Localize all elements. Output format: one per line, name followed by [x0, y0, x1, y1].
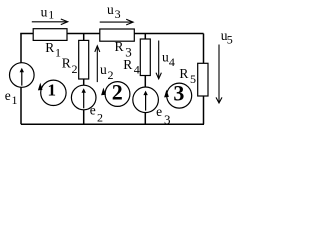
- svg-text:1: 1: [55, 46, 61, 60]
- wire bottom rail: [21, 123, 204, 125]
- svg-text:4: 4: [134, 62, 140, 76]
- resistor R2: [79, 40, 89, 79]
- wire left rail: [20, 34, 22, 125]
- svg-text:e: e: [5, 88, 11, 103]
- svg-text:R: R: [179, 66, 188, 81]
- svg-text:1: 1: [47, 81, 56, 100]
- resistor R4: [140, 39, 150, 76]
- svg-text:e: e: [156, 104, 162, 119]
- svg-text:u: u: [107, 2, 114, 17]
- svg-text:2: 2: [97, 110, 103, 124]
- mesh current arrow 2: [101, 82, 130, 107]
- svg-text:5: 5: [227, 33, 233, 47]
- resistor R1: [33, 29, 67, 41]
- voltage arrow u1: [32, 19, 68, 25]
- svg-text:3: 3: [164, 112, 171, 127]
- svg-text:3: 3: [173, 81, 184, 106]
- source e1 arrow: [20, 68, 24, 86]
- svg-text:2: 2: [72, 62, 78, 76]
- mesh current arrow 3: [164, 83, 192, 108]
- svg-text:3: 3: [115, 7, 121, 21]
- wire R2 branch: [83, 34, 85, 125]
- svg-text:4: 4: [169, 55, 175, 69]
- wire top rail: [21, 33, 204, 36]
- svg-text:R: R: [62, 56, 71, 71]
- svg-text:e: e: [90, 102, 96, 117]
- svg-text:u: u: [41, 4, 48, 19]
- source e1 circle: [9, 63, 34, 88]
- wire R5 branch (right rail): [203, 34, 205, 125]
- svg-text:R: R: [45, 40, 54, 55]
- voltage arrow u4: [156, 41, 161, 79]
- voltage arrow u5: [216, 45, 222, 104]
- svg-text:5: 5: [190, 72, 196, 86]
- voltage arrow u2: [95, 46, 100, 82]
- resistor R3: [100, 29, 135, 41]
- source e2 arrow: [82, 88, 86, 108]
- voltage arrow u3: [100, 19, 133, 25]
- svg-text:1: 1: [12, 93, 18, 107]
- source e3 circle: [133, 87, 159, 113]
- source e3 arrow: [143, 91, 147, 111]
- svg-text:R: R: [123, 57, 132, 72]
- source e2 circle: [71, 85, 96, 110]
- wire R4 branch: [144, 34, 146, 125]
- svg-text:u: u: [100, 62, 107, 77]
- svg-text:R: R: [115, 39, 124, 54]
- svg-text:1: 1: [48, 7, 54, 21]
- mesh current arrow 1: [38, 80, 66, 105]
- svg-text:2: 2: [112, 79, 123, 104]
- resistor R5: [198, 63, 208, 96]
